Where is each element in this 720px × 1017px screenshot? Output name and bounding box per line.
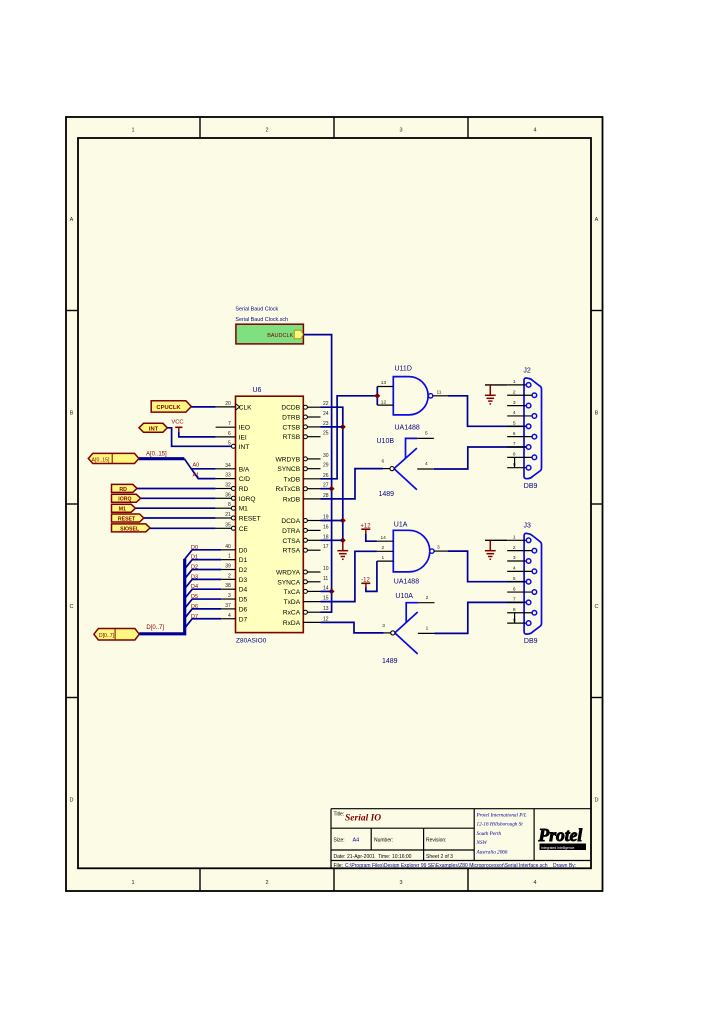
wire IORQ to U6 (141, 497, 216, 499)
svg-text:27: 27 (323, 483, 329, 489)
svg-text:2: 2 (265, 880, 268, 886)
svg-text:19: 19 (323, 515, 329, 521)
J3 pin 8 (507, 612, 532, 614)
junction V1 x TxCA (329, 588, 335, 594)
svg-text:18: 18 (323, 534, 329, 540)
svg-text:2: 2 (426, 595, 429, 601)
svg-text:M1: M1 (119, 507, 126, 513)
J2 pin 1 (507, 384, 526, 386)
svg-text:32: 32 (225, 483, 231, 489)
svg-text:D4: D4 (191, 584, 198, 590)
svg-text:RESET: RESET (239, 516, 261, 523)
svg-text:37: 37 (225, 603, 231, 609)
wire CTSA to V2 (321, 539, 343, 541)
wire DCDB/CTSB/DCDA/CTSA ground net (V2) (321, 407, 343, 540)
svg-text:1: 1 (131, 880, 134, 886)
svg-text:Serial Baud Clock: Serial Baud Clock (235, 307, 278, 313)
svg-text:U1A: U1A (394, 522, 408, 529)
svg-text:35: 35 (225, 522, 231, 528)
U11D pin stubs (377, 386, 393, 388)
port IORQ (112, 494, 141, 502)
svg-text:A: A (595, 217, 599, 223)
svg-text:Number:: Number: (374, 838, 393, 844)
wire D6 to U6 (185, 609, 222, 618)
svg-text:B: B (595, 411, 599, 417)
J2 pin 8 (507, 456, 532, 458)
J3 pin 6 (507, 591, 532, 593)
wire INT to U6 INT (167, 428, 231, 447)
wire U10B out to U6 RxDB (321, 469, 384, 499)
svg-text:IORQ: IORQ (118, 497, 131, 503)
svg-text:A1: A1 (193, 473, 200, 479)
J2 pin 4 (507, 415, 532, 417)
wire RxTxCB to V1 (321, 488, 332, 490)
wire D5 to U6 (185, 599, 222, 608)
svg-text:Z80ASIO0: Z80ASIO0 (236, 638, 267, 645)
wire CPUCLK to U6 CLK (191, 406, 215, 408)
ground at J2 pin 1 (485, 385, 496, 404)
svg-text:NSW: NSW (476, 840, 488, 846)
svg-text:Australia 2066: Australia 2066 (476, 849, 508, 855)
svg-text:2: 2 (382, 545, 385, 551)
svg-text:B/A: B/A (239, 466, 250, 473)
svg-text:BAUDCLK: BAUDCLK (267, 333, 293, 339)
svg-text:12-16 Hillsborough St: 12-16 Hillsborough St (477, 822, 524, 828)
svg-text:TxCA: TxCA (284, 589, 301, 596)
J3 pin 2 (507, 550, 532, 552)
svg-text:D: D (595, 798, 599, 804)
svg-text:D0: D0 (239, 547, 248, 554)
svg-text:UA1488: UA1488 (395, 425, 420, 432)
svg-text:IORQ: IORQ (239, 496, 256, 503)
sheet symbol: Serial Baud Clock generator (236, 324, 304, 344)
svg-text:4: 4 (533, 880, 536, 886)
svg-text:4: 4 (513, 410, 516, 416)
J3 pin 9 (507, 622, 526, 624)
svg-text:DTRB: DTRB (282, 415, 301, 422)
wire D3 to U6 (185, 579, 222, 588)
svg-text:11: 11 (437, 389, 442, 395)
svg-text:5: 5 (228, 440, 231, 446)
wire RD to U6 (137, 488, 216, 490)
svg-text:D2: D2 (239, 567, 248, 574)
svg-text:3: 3 (228, 593, 231, 599)
svg-text:Revision:: Revision: (426, 838, 447, 844)
svg-text:INT: INT (149, 426, 159, 432)
svg-text:5: 5 (513, 576, 516, 582)
svg-text:UA1488: UA1488 (394, 579, 419, 586)
svg-text:29: 29 (323, 463, 329, 469)
wire A1 to U6 C/D (191, 469, 215, 479)
svg-text:2: 2 (513, 389, 516, 395)
J2 pin 1 ground wire (485, 384, 507, 386)
sheet entry BAUDCLK (294, 330, 303, 338)
svg-text:28: 28 (323, 493, 329, 499)
svg-text:U6: U6 (253, 387, 262, 394)
svg-text:39: 39 (225, 564, 231, 570)
wire U10A in from J3 pin 4 (435, 602, 527, 633)
svg-text:WRDYA: WRDYA (276, 570, 301, 577)
port RESET (112, 514, 144, 522)
wire U11D input tie (376, 387, 378, 406)
svg-text:4: 4 (425, 461, 428, 467)
wire BAUDCLK to RxCA (vertical V1) (303, 335, 331, 613)
svg-text:Integrated Intelligence: Integrated Intelligence (541, 846, 574, 850)
svg-text:C: C (595, 604, 599, 610)
port SIOSEL (112, 524, 151, 532)
svg-text:D3: D3 (239, 577, 248, 584)
svg-text:RD: RD (119, 487, 127, 493)
svg-text:1: 1 (228, 554, 231, 560)
svg-text:U11D: U11D (395, 366, 412, 373)
IC U6 Z80ASIO0 body (236, 396, 304, 632)
svg-text:15: 15 (323, 596, 329, 602)
receiver U10B 1489 (394, 438, 417, 489)
svg-text:1: 1 (382, 555, 385, 561)
J3 pins 8-9 tie (514, 613, 516, 623)
title block (331, 809, 591, 869)
svg-text:10: 10 (323, 566, 329, 572)
svg-text:RTSB: RTSB (283, 434, 301, 441)
svg-text:A0: A0 (193, 463, 200, 469)
J2 pin 7 (507, 446, 526, 448)
svg-text:C:\Program Files\Design Explor: C:\Program Files\Design Explorer 99 SE\E… (345, 863, 548, 869)
svg-text:Size:: Size: (334, 838, 345, 844)
svg-text:34: 34 (225, 463, 231, 469)
svg-text:Sheet 2 of 3: Sheet 2 of 3 (426, 854, 453, 860)
wire TxDA to U1A pin 2 (321, 551, 377, 601)
J3 pin 5 (507, 581, 526, 583)
svg-text:INT: INT (239, 444, 250, 451)
svg-text:DCDB: DCDB (281, 405, 300, 412)
svg-text:14: 14 (381, 535, 387, 541)
wire D4 to U6 (185, 589, 222, 598)
svg-text:TxDB: TxDB (284, 476, 301, 483)
svg-text:Serial Baud Clock.sch: Serial Baud Clock.sch (235, 317, 288, 323)
port INT (139, 423, 167, 432)
ground (signal ground, V2 net) (337, 540, 348, 559)
svg-text:RTSA: RTSA (283, 548, 301, 555)
svg-text:A[0..15]: A[0..15] (92, 457, 110, 463)
svg-text:7: 7 (228, 421, 231, 427)
U6 left pins (216, 406, 236, 408)
svg-text:Protel International P/L: Protel International P/L (476, 813, 527, 819)
J2 pin 9 (507, 467, 526, 469)
svg-text:CTSB: CTSB (283, 424, 301, 431)
svg-text:-12: -12 (361, 577, 370, 583)
svg-text:CE: CE (239, 526, 249, 533)
U10A pin stubs (418, 602, 435, 604)
svg-text:13: 13 (323, 606, 329, 612)
svg-text:30: 30 (323, 453, 329, 459)
wire U10A out to U6 RxDA (321, 622, 384, 633)
wire D7 to U6 (185, 619, 222, 628)
wire TxCA to V1 (321, 590, 332, 592)
svg-text:C: C (70, 604, 74, 610)
svg-text:DTRA: DTRA (282, 528, 301, 535)
port M1 (112, 504, 136, 512)
svg-text:6: 6 (382, 459, 385, 465)
svg-text:D6: D6 (191, 604, 198, 610)
driver gate U1A UA1488 (393, 530, 430, 572)
svg-text:24: 24 (323, 411, 329, 417)
svg-text:6: 6 (228, 431, 231, 437)
ground at J3 pin 1 (485, 540, 496, 559)
svg-text:DCDA: DCDA (281, 518, 300, 525)
svg-text:CTSA: CTSA (283, 538, 301, 545)
svg-text:20: 20 (225, 401, 231, 407)
svg-text:4: 4 (513, 566, 516, 572)
svg-text:J3: J3 (524, 523, 532, 530)
wire TxDB to U11D inputs (321, 396, 378, 479)
svg-text:8: 8 (513, 452, 516, 458)
port CPUCLK (151, 401, 191, 412)
svg-text:3: 3 (382, 623, 385, 629)
svg-text:A[0..15]: A[0..15] (146, 452, 167, 458)
svg-text:D3: D3 (191, 574, 198, 580)
svg-text:6: 6 (513, 431, 516, 437)
svg-text:VCC: VCC (171, 419, 183, 425)
svg-text:1: 1 (513, 535, 516, 541)
junction V2 x CTSA (340, 537, 346, 543)
U10B pin stubs (417, 437, 434, 439)
svg-text:26: 26 (323, 473, 329, 479)
svg-text:D[0..7]: D[0..7] (146, 625, 164, 631)
receiver U10A 1489 (395, 603, 418, 654)
wire U10B in from J2 pin 4 (434, 447, 527, 469)
svg-text:5: 5 (425, 431, 428, 437)
svg-text:2: 2 (228, 573, 231, 579)
svg-text:South Perth: South Perth (477, 831, 502, 837)
junction V2 x DCDA (340, 518, 346, 524)
svg-text:U10A: U10A (395, 593, 413, 600)
svg-text:5: 5 (513, 421, 516, 427)
svg-text:M1: M1 (239, 506, 248, 513)
wire RESET to U6 (144, 517, 216, 519)
svg-text:Date:: Date: (334, 854, 346, 860)
svg-text:File:: File: (334, 863, 343, 869)
wire A0 to U6 B/A (184, 459, 215, 469)
svg-text:1489: 1489 (379, 491, 395, 498)
J2 pin 3 (507, 405, 526, 407)
wire -12 to U1A pin 1 (366, 561, 377, 591)
svg-text:SYNCB: SYNCB (277, 466, 300, 473)
svg-text:D1: D1 (239, 557, 248, 564)
svg-text:D5: D5 (239, 597, 248, 604)
U6 data pins D0-D7 (221, 549, 235, 551)
svg-text:CPUCLK: CPUCLK (156, 405, 181, 411)
svg-text:D4: D4 (239, 587, 248, 594)
svg-text:38: 38 (225, 583, 231, 589)
svg-text:7: 7 (513, 597, 516, 603)
svg-text:IEO: IEO (239, 425, 250, 432)
U6 right pins (303, 405, 307, 409)
svg-text:8: 8 (228, 502, 231, 508)
junction U11D input tie (374, 393, 380, 399)
svg-text:21: 21 (225, 512, 231, 518)
wire CTSB to V2 (321, 426, 343, 428)
port A[0..15] (88, 453, 139, 463)
svg-text:Protel: Protel (538, 825, 583, 845)
svg-text:16: 16 (323, 524, 329, 530)
J2 pin 2 (507, 394, 532, 396)
svg-text:D1: D1 (191, 555, 198, 561)
svg-text:C/D: C/D (239, 476, 251, 483)
port D[0..7] (94, 629, 139, 641)
svg-text:A4: A4 (353, 838, 360, 844)
U1A pin stubs (377, 540, 393, 542)
svg-text:11: 11 (323, 576, 328, 582)
junction V1 x RxTxCB (329, 486, 335, 492)
wire DCDA to V2 (321, 520, 343, 522)
svg-text:4: 4 (228, 613, 231, 619)
svg-text:D: D (70, 798, 74, 804)
svg-text:1: 1 (426, 626, 429, 632)
svg-text:+12: +12 (360, 523, 371, 529)
wire U1A out to J3 pin 3 (448, 551, 526, 582)
svg-text:D6: D6 (239, 606, 248, 613)
svg-text:14: 14 (323, 585, 329, 591)
connector J3 DB9 (524, 533, 541, 634)
wire D2 to U6 (185, 570, 222, 579)
svg-text:36: 36 (225, 492, 231, 498)
svg-text:DB9: DB9 (524, 638, 538, 645)
svg-text:TxDA: TxDA (284, 599, 301, 606)
svg-text:21-Apr-2001: 21-Apr-2001 (347, 854, 375, 860)
svg-text:DB9: DB9 (524, 483, 538, 490)
svg-text:U10B: U10B (377, 438, 395, 445)
svg-text:D7: D7 (239, 616, 248, 623)
op-amp/driver gate U11D UA1488 (393, 377, 428, 415)
svg-text:7: 7 (513, 441, 516, 447)
svg-text:RxTxCB: RxTxCB (276, 486, 301, 493)
J2 pin 5 (507, 425, 526, 427)
wire D1 to U6 (185, 560, 222, 569)
wire U11D out to J2 pin 3 (448, 396, 526, 427)
svg-text:D2: D2 (191, 565, 198, 571)
svg-text:13: 13 (381, 380, 387, 386)
wire VCC to U6 IEI (179, 432, 216, 437)
J2 pins 8-9 tie (514, 457, 516, 467)
J3 pin 4 (507, 570, 532, 572)
svg-text:4: 4 (533, 128, 536, 134)
svg-text:D[0..7]: D[0..7] (99, 633, 115, 639)
U6 CLK clock marker (236, 404, 240, 411)
svg-text:17: 17 (323, 544, 329, 550)
bus D[0..7] (139, 559, 184, 634)
J3 pin 3 (507, 560, 526, 562)
svg-text:Time:: Time: (378, 854, 390, 860)
svg-text:D7: D7 (191, 614, 198, 620)
svg-text:RESET: RESET (118, 516, 136, 522)
J3 pin 7 (507, 601, 526, 603)
svg-text:23: 23 (323, 421, 329, 427)
svg-text:RxDA: RxDA (283, 620, 301, 627)
svg-text:2: 2 (513, 545, 516, 551)
svg-text:D0: D0 (191, 545, 198, 551)
svg-text:Title:: Title: (334, 812, 345, 818)
svg-text:8: 8 (513, 607, 516, 613)
svg-text:25: 25 (323, 431, 329, 437)
svg-text:6: 6 (513, 586, 516, 592)
svg-text:SYNCA: SYNCA (277, 579, 300, 586)
svg-text:3: 3 (513, 555, 516, 561)
svg-text:3: 3 (437, 545, 440, 551)
J3 pin 1 ground wire (485, 539, 507, 541)
svg-text:3: 3 (399, 128, 402, 134)
wire +12 to U1A pin 14 (366, 534, 377, 541)
svg-text:B: B (70, 411, 74, 417)
J3 pin 1 (507, 539, 526, 541)
svg-text:12: 12 (381, 399, 387, 405)
bus A[0..15] (139, 457, 184, 460)
svg-text:1: 1 (131, 128, 134, 134)
svg-text:33: 33 (225, 473, 231, 479)
svg-text:3: 3 (399, 880, 402, 886)
svg-text:WRDYB: WRDYB (276, 456, 301, 463)
svg-text:10:16:00: 10:16:00 (392, 854, 412, 860)
connector J2 DB9 (524, 378, 542, 479)
svg-text:1: 1 (513, 379, 516, 385)
svg-text:D5: D5 (191, 594, 198, 600)
wire D0 to U6 (185, 550, 222, 559)
svg-text:3: 3 (513, 400, 516, 406)
svg-text:CLK: CLK (239, 404, 252, 411)
svg-text:A: A (70, 217, 74, 223)
svg-text:22: 22 (323, 401, 329, 407)
J2 pin 6 (507, 436, 532, 438)
svg-text:RxCA: RxCA (283, 610, 301, 617)
svg-text:J2: J2 (523, 368, 531, 375)
svg-text:12: 12 (323, 616, 329, 622)
svg-text:SIOSEL: SIOSEL (120, 526, 140, 532)
svg-text:RxDB: RxDB (283, 496, 301, 503)
wire SIOSEL to U6 (150, 527, 216, 529)
svg-text:2: 2 (265, 128, 268, 134)
svg-text:Serial IO: Serial IO (345, 814, 381, 824)
wire M1 to U6 (135, 507, 215, 509)
svg-text:IEI: IEI (239, 434, 247, 441)
port RD (112, 484, 138, 492)
svg-text:40: 40 (225, 544, 231, 550)
junction V2 x CTSB (340, 424, 346, 430)
svg-text:RD: RD (239, 486, 249, 493)
svg-text:Drawn By:: Drawn By: (553, 863, 576, 869)
svg-text:1489: 1489 (382, 658, 398, 665)
